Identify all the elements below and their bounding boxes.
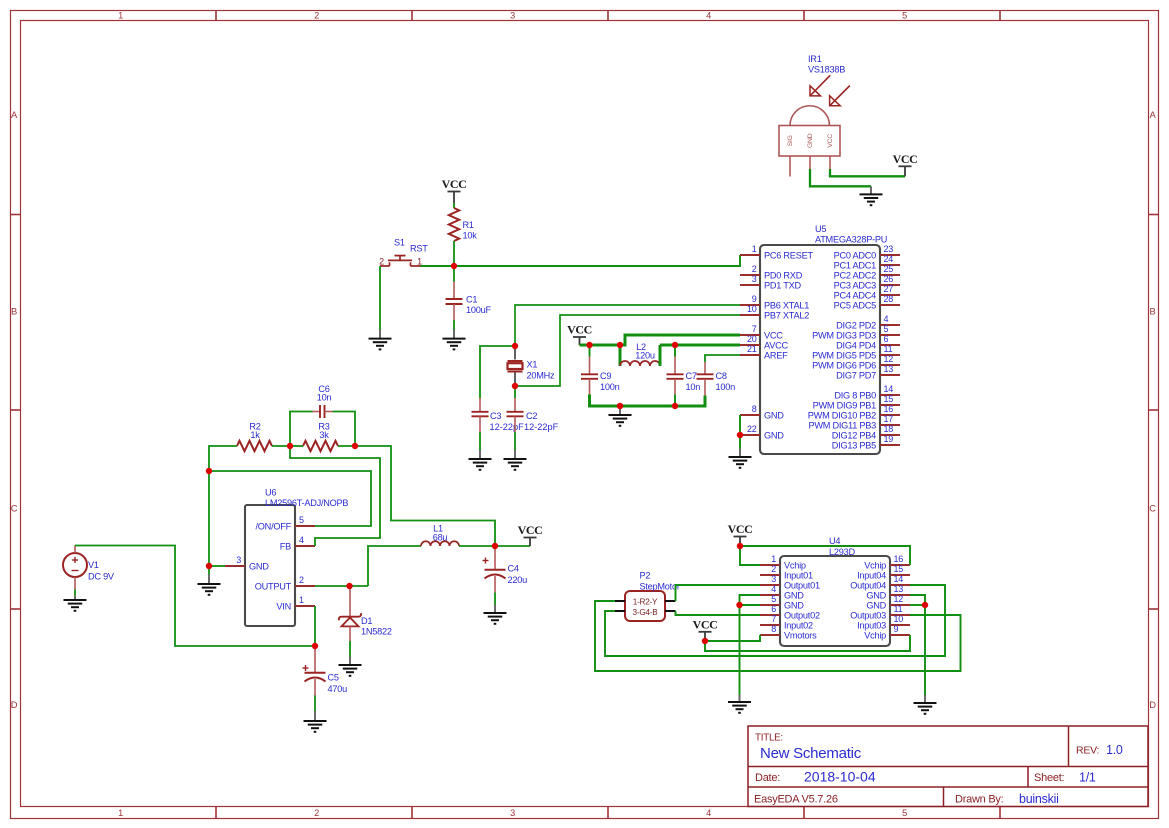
svg-text:10n: 10n [686,382,701,392]
wire C4 to ground [494,593,496,605]
svg-text:A: A [11,109,18,120]
svg-text:4: 4 [706,808,711,818]
ground (C3) [469,450,492,470]
svg-text:120u: 120u [635,351,655,361]
ground (rail) [609,406,632,426]
wire VCC to U4 pin1 [740,546,760,565]
wire U5 AREF to C8 [705,355,740,362]
svg-text:DIG13 PB5: DIG13 PB5 [832,440,876,450]
svg-text:2: 2 [299,575,304,585]
svg-text:PC0 ADC0: PC0 ADC0 [834,250,877,260]
svg-text:VS1838B: VS1838B [808,64,845,74]
svg-text:TITLE:: TITLE: [755,733,783,744]
svg-text:Output03: Output03 [850,610,886,620]
wire node A to R3 [290,445,303,447]
svg-text:Drawn By:: Drawn By: [955,794,1004,806]
wire U6 VIN down [314,606,316,646]
svg-text:PWM DIG11 PB3: PWM DIG11 PB3 [808,420,876,430]
svg-text:3: 3 [510,11,515,21]
svg-text:1/1: 1/1 [1079,771,1096,785]
svg-text:11: 11 [894,604,903,614]
svg-text:C7: C7 [686,371,697,381]
svg-text:470u: 470u [328,684,348,694]
wire P2 to U4 Output01 [676,585,761,601]
svg-text:10k: 10k [463,231,478,241]
svg-text:U5: U5 [815,224,826,234]
svg-text:15: 15 [884,394,894,404]
wire L2 to U5 AVCC [660,344,740,347]
VCC flag (U4) [728,522,753,546]
wire U4 GND right [910,595,925,695]
svg-text:D: D [11,699,18,710]
IR1 VCC pin [829,156,831,169]
svg-text:U6: U6 [265,488,276,498]
svg-text:25: 25 [884,264,894,274]
capacitor C5 [303,646,348,696]
ground (U5) [729,449,752,468]
svg-text:GND: GND [764,430,784,440]
driver U4 L293D [760,536,910,646]
capacitor C6 [290,384,355,446]
svg-text:PD0 RXD: PD0 RXD [764,270,803,280]
wire VCC to U4 pin16 [740,546,910,565]
svg-text:GND: GND [866,590,886,600]
wire S1 pin2 to ground [379,266,381,330]
capacitor C7 [667,345,701,395]
svg-text:5: 5 [299,515,304,525]
svg-text:1: 1 [771,554,776,564]
inductor L2 [620,342,660,366]
ground (U6) [198,566,221,595]
svg-text:C4: C4 [508,564,519,574]
VCC flag (rail) [567,323,592,345]
VCC flag (R1) [442,177,467,203]
svg-text:X1: X1 [527,360,538,370]
capacitor C1 [446,282,492,321]
svg-text:GND: GND [784,590,804,600]
svg-text:2: 2 [752,264,757,274]
svg-text:2: 2 [379,257,384,267]
svg-text:Output02: Output02 [784,610,820,620]
svg-text:4: 4 [299,535,304,545]
svg-text:1: 1 [299,595,304,605]
ground (U4 left) [728,695,751,713]
wire D1 to ground [349,626,351,656]
svg-text:PWM DIG5 PD5: PWM DIG5 PD5 [812,350,876,360]
wire P2 to U4 Output04 [605,585,945,656]
svg-text:PB6 XTAL1: PB6 XTAL1 [764,300,809,310]
svg-text:100n: 100n [600,382,620,392]
svg-text:PC4 ADC4: PC4 ADC4 [834,290,877,300]
svg-text:1.0: 1.0 [1106,743,1123,757]
svg-text:FB: FB [280,541,291,551]
svg-text:12-22pF: 12-22pF [490,422,525,432]
svg-text:5: 5 [902,11,907,21]
svg-text:PWM DIG9 PB1: PWM DIG9 PB1 [813,400,877,410]
svg-text:StepMotor: StepMotor [640,581,680,591]
svg-text:/ON/OFF: /ON/OFF [255,521,291,531]
wire R2 to node A [272,445,290,447]
svg-text:PB7 XTAL2: PB7 XTAL2 [764,310,809,320]
svg-text:New Schematic: New Schematic [760,745,862,762]
svg-text:VCC: VCC [893,152,918,166]
svg-text:6: 6 [771,604,776,614]
svg-text:68u: 68u [433,533,448,543]
svg-text:C: C [11,502,18,513]
svg-text:PD1 TXD: PD1 TXD [764,280,801,290]
ground (C4) [484,605,507,624]
wire FB net [290,446,380,546]
svg-text:C3: C3 [490,411,501,421]
svg-text:B: B [11,306,17,317]
svg-text:VCC: VCC [442,177,467,191]
regulator U6 LM2596T-ADJ/NOPB [225,488,348,627]
svg-text:VCC: VCC [764,330,783,340]
capacitor C2 [507,398,559,432]
wire U5 XTAL2 to X1 [515,315,740,386]
wire U5 XTAL1 to X1 [515,305,740,346]
connector P2 StepMotor [615,571,680,622]
wire C2 to ground [514,432,516,450]
wire R2 left net [209,446,237,471]
svg-text:DC 9V: DC 9V [88,572,115,582]
svg-text:VCC: VCC [518,523,543,537]
svg-text:9: 9 [894,624,899,634]
svg-text:Input04: Input04 [857,570,886,580]
svg-text:VCC: VCC [728,522,753,536]
svg-text:PC1 ADC1: PC1 ADC1 [834,260,877,270]
svg-text:GND: GND [866,600,886,610]
svg-text:28: 28 [884,294,894,304]
svg-text:23: 23 [884,244,894,254]
svg-text:ATMEGA328P-PU: ATMEGA328P-PU [815,235,887,245]
capacitor C8 [697,362,736,396]
ground (D1) [339,657,362,676]
svg-text:1: 1 [752,244,757,254]
svg-text:Input03: Input03 [857,620,886,630]
svg-text:PWM DIG3 PD3: PWM DIG3 PD3 [812,330,876,340]
svg-text:VIN: VIN [276,601,291,611]
svg-text:17: 17 [884,414,894,424]
svg-text:Vchip: Vchip [864,560,886,570]
svg-text:PC5 ADC5: PC5 ADC5 [834,300,877,310]
svg-text:U4: U4 [829,536,840,546]
wire node C to U6 GND [208,471,210,566]
svg-text:C9: C9 [600,371,611,381]
wire VCC to U4 pin9 [705,635,910,651]
capacitor C9 [581,345,620,395]
svg-text:4: 4 [706,11,711,21]
svg-text:GND: GND [807,133,814,148]
resistor R1 [449,208,477,241]
svg-text:V1: V1 [88,560,99,570]
svg-text:C8: C8 [716,371,727,381]
svg-text:LM2596T-ADJ/NOPB: LM2596T-ADJ/NOPB [265,498,348,508]
svg-text:Input02: Input02 [784,620,813,630]
svg-text:3: 3 [771,574,776,584]
svg-text:GND: GND [249,561,269,571]
svg-text:20MHz: 20MHz [527,371,556,381]
resistor R2 [237,422,272,452]
svg-text:1N5822: 1N5822 [361,627,392,637]
svg-text:AREF: AREF [764,350,788,360]
microcontroller U5 ATMEGA328P-PU [740,224,900,454]
svg-text:15: 15 [894,564,904,574]
diode D1 1N5822 [338,586,392,637]
svg-text:B: B [1149,306,1155,317]
svg-text:Output04: Output04 [850,580,886,590]
svg-text:9: 9 [752,294,757,304]
svg-text:5: 5 [902,808,907,818]
svg-text:14: 14 [884,384,894,394]
ground (IR1) [860,186,883,205]
svg-text:L293D: L293D [829,547,855,557]
svg-text:12: 12 [894,594,904,604]
wire VCC rail to U5 VCC [580,335,741,345]
svg-text:4: 4 [771,584,776,594]
svg-text:DIG12 PB4: DIG12 PB4 [832,430,876,440]
svg-text:DIG7 PD7: DIG7 PD7 [836,370,876,380]
wire to U6 GND pin [209,565,225,567]
ground (S1) [369,330,392,350]
svg-text:10: 10 [894,614,904,624]
svg-text:Sheet:: Sheet: [1034,772,1064,784]
wire node C to ON/OFF [209,471,371,526]
wire VCC to R1 [453,203,455,208]
svg-text:3-G4-B: 3-G4-B [633,608,659,617]
net label RST [410,244,428,254]
svg-text:DIG2 PD2: DIG2 PD2 [836,320,876,330]
svg-text:8: 8 [752,404,757,414]
svg-text:IR1: IR1 [808,54,822,64]
svg-text:R1: R1 [463,220,474,230]
wire V1 to ground [74,590,76,596]
svg-text:GND: GND [764,410,784,420]
IR receiver IR1 labels [808,54,845,74]
svg-text:A: A [1149,109,1156,120]
svg-text:4: 4 [884,314,889,324]
svg-text:5: 5 [884,324,889,334]
ground (V1) [64,596,87,611]
wire VCC to U4 pin8 [705,635,760,641]
wire U6 OUTPUT [315,585,368,587]
wire IR1 VCC [830,169,905,176]
svg-text:10: 10 [747,304,757,314]
svg-text:VCC: VCC [693,617,718,631]
wire V1 to VIN [75,546,315,647]
svg-text:VCC: VCC [827,134,834,148]
wire OUTPUT to L1 [368,546,421,586]
svg-text:220u: 220u [508,575,528,585]
svg-text:3: 3 [236,555,241,565]
wire R3 to node B [338,445,355,447]
voltage source V1 [63,546,115,590]
svg-text:1: 1 [118,11,123,21]
wire node RST to U5 pin1 [421,255,741,266]
title block [748,726,1148,807]
svg-text:VCC: VCC [567,323,592,337]
capacitor C3 [472,398,525,432]
svg-text:D1: D1 [361,616,372,626]
svg-text:3: 3 [510,808,515,818]
svg-text:12: 12 [884,354,894,364]
wire C5 to ground [314,696,316,712]
svg-text:PWM DIG10 PB2: PWM DIG10 PB2 [808,410,876,420]
svg-text:D: D [1149,699,1156,710]
svg-text:3: 3 [752,274,757,284]
svg-text:100uF: 100uF [466,305,491,315]
inductor L1 [421,524,459,547]
wire C1 to ground [453,320,455,330]
ground (C5) [304,711,327,732]
svg-text:C5: C5 [328,673,339,683]
svg-text:S1: S1 [394,238,405,248]
svg-text:EasyEDA V5.7.26: EasyEDA V5.7.26 [754,794,838,806]
wire L1 to VCC [459,545,530,547]
svg-text:18: 18 [884,424,894,434]
wire X1 to C3 [480,346,515,398]
svg-text:10n: 10n [317,393,332,403]
svg-text:19: 19 [884,434,894,444]
svg-text:13: 13 [884,364,894,374]
svg-text:100n: 100n [716,382,736,392]
svg-text:AVCC: AVCC [764,340,788,350]
svg-text:8: 8 [771,624,776,634]
svg-text:13: 13 [894,584,904,594]
svg-text:PC2 ADC2: PC2 ADC2 [834,270,877,280]
svg-text:1k: 1k [250,430,260,440]
svg-text:Vmotors: Vmotors [784,630,817,640]
crystal X1 [508,346,556,386]
svg-text:SIG: SIG [787,135,794,146]
svg-text:PWM DIG6 PD6: PWM DIG6 PD6 [812,360,876,370]
svg-text:GND: GND [784,600,804,610]
svg-text:6: 6 [884,334,889,344]
wire C3 to ground [479,432,481,450]
svg-text:5: 5 [771,594,776,604]
svg-text:PC3 ADC3: PC3 ADC3 [834,280,877,290]
svg-text:16: 16 [884,404,894,414]
capacitor C4 [483,546,528,593]
svg-text:RST: RST [410,244,428,254]
wire U4 GND left [740,595,761,695]
switch S1 [379,238,422,267]
wire P2 to U4 Output03 [595,601,961,671]
IR1 SIG pin [789,156,791,177]
wire U5 GND to ground [739,415,741,449]
svg-text:7: 7 [752,324,757,334]
svg-text:Input01: Input01 [784,570,813,580]
svg-text:11: 11 [884,344,893,354]
svg-text:1: 1 [118,808,123,818]
svg-text:C: C [1149,502,1156,513]
svg-text:24: 24 [884,254,894,264]
svg-text:P2: P2 [640,571,651,581]
svg-text:20: 20 [747,334,757,344]
svg-text:PC6 RESET: PC6 RESET [764,250,813,260]
wire node B to VCC sense [355,446,495,546]
ground (C1) [443,330,466,350]
svg-text:2: 2 [314,808,319,818]
svg-text:Date:: Date: [755,772,780,784]
resistor R3 [303,422,338,452]
svg-text:C1: C1 [466,295,477,305]
svg-text:1: 1 [417,257,422,267]
svg-text:OUTPUT: OUTPUT [255,581,292,591]
svg-text:REV:: REV: [1076,745,1099,757]
ground (C2) [504,450,527,470]
svg-text:14: 14 [894,574,904,584]
VCC flag (L1) [518,523,543,546]
wire R1 to node RST [453,241,455,266]
wire ground rail [590,395,706,407]
svg-text:2: 2 [314,11,319,21]
svg-text:7: 7 [771,614,776,624]
svg-text:3k: 3k [319,430,329,440]
svg-text:C2: C2 [526,411,537,421]
ground (U4 right) [914,695,937,714]
wire P2 to U4 Output02 [676,611,761,615]
svg-text:16: 16 [894,554,904,564]
svg-text:DIG4 PD4: DIG4 PD4 [836,340,876,350]
VCC flag (Vmotors) [693,617,718,641]
svg-text:DIG 8 PB0: DIG 8 PB0 [834,390,876,400]
svg-text:2: 2 [771,564,776,574]
wire RST to C1 [453,266,455,282]
IR receiver IR1 [779,75,850,156]
IR1 GND pin [809,156,811,169]
svg-text:26: 26 [884,274,894,284]
svg-text:1-R2-Y: 1-R2-Y [633,597,658,606]
svg-text:22: 22 [747,424,757,434]
VCC flag (IR1) [893,152,918,176]
svg-text:2018-10-04: 2018-10-04 [804,769,876,785]
wire X1 to C2 [514,386,516,398]
svg-text:Output01: Output01 [784,580,820,590]
svg-text:12-22pF: 12-22pF [524,422,559,432]
svg-text:Vchip: Vchip [784,560,806,570]
svg-text:buinskii: buinskii [1019,792,1059,806]
svg-text:27: 27 [884,284,894,294]
svg-text:Vchip: Vchip [864,630,886,640]
wire IR1 GND to ground [810,169,871,186]
svg-text:21: 21 [747,344,757,354]
